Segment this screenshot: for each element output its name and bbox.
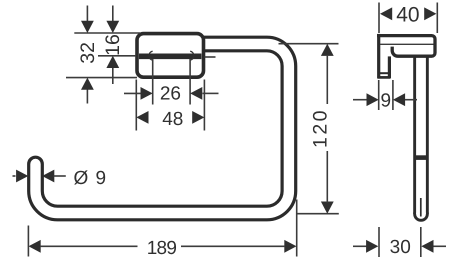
svg-text:120: 120 [310,108,332,148]
side view tube vertical outer [413,56,429,214]
dim 16 bottom arrow [112,67,114,84]
dim 30 extension line left [378,227,380,257]
dim 9 extension line right [392,80,394,110]
svg-text:189: 189 [147,238,177,259]
svg-text:26: 26 [160,84,181,105]
screw hole arc left [149,51,153,60]
dim 48 left arrow [136,111,148,124]
dim 189 left arrow [29,240,41,253]
dim o9 right arrow [42,170,54,183]
dim 16 top arrow [112,6,114,23]
dim 48 extension line left [135,80,137,131]
dim 48 right arrow [192,111,204,124]
dim 30 right arrow [432,245,446,247]
side view plate foot upper line [379,72,390,74]
dim 32 top arrow [86,6,88,23]
svg-text:48: 48 [162,109,183,130]
side view plate foot bottom line [377,76,390,79]
dim 26 extension line right [189,59,191,105]
dim 26 right arrow [203,92,219,94]
dim 40 left arrow [380,7,392,20]
dim 48 extension line right [203,80,205,131]
dim 189 right arrow [284,240,296,253]
dim 40 extension line left [378,3,380,34]
dim 120 extension line top [279,43,339,45]
dim 30 left arrow [353,245,368,247]
svg-text:40: 40 [396,3,419,26]
extension line top (plate top level) [74,32,140,34]
dim 189 extension line right [296,200,298,257]
extension line plate bottom level [66,77,137,79]
dim 32 bottom arrow [86,89,88,104]
wall plate (front view rounded rect) [137,34,204,78]
side view tube inner white [416,54,426,214]
dim 30 extension line right [420,227,422,257]
side view plate wall line [377,34,380,78]
svg-text:32: 32 [77,42,99,64]
dim 9 right arrow [405,99,418,101]
svg-text:Ø 9: Ø 9 [74,168,108,189]
dim 189 extension line left [27,226,29,257]
dim 26 left arrow [124,92,141,94]
dim 120 extension line bottom [296,213,339,215]
dim 26 extension line left [152,59,154,105]
screw bar band inside plate [139,53,202,59]
towel ring tube (front view) inner white [36,44,289,213]
dim 40 extension line right [436,3,438,34]
side view tube inner cap line [420,198,422,217]
svg-text:30: 30 [390,237,411,258]
extension line screw centerline (16) [98,55,136,57]
side view plate front face [388,56,391,78]
towel ring tube (front view) outer stroke [36,44,289,213]
dim 9 left arrow [353,99,369,101]
dim 120 top arrow [321,44,334,56]
dim 9 extension line left [378,80,380,110]
side view seam thin line [380,43,434,45]
dim o9 left arrow [13,175,16,177]
screw hole arc right [190,51,194,60]
side view tube hook tip tick [414,155,428,160]
side view bar outline with end curl [377,36,435,57]
dim 120 bottom arrow [321,202,334,214]
svg-text:16: 16 [102,34,124,56]
dim 40 right arrow [424,7,436,20]
svg-text:9: 9 [381,91,392,112]
band stub right of plate [205,56,216,58]
